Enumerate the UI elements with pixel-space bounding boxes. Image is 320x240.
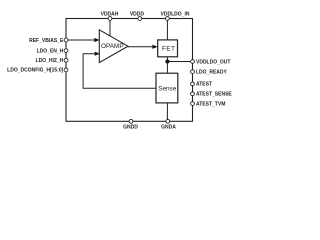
svg-text:VDDLDO_IN: VDDLDO_IN bbox=[161, 12, 190, 18]
port REF_VBIAS_E bbox=[29, 38, 68, 44]
svg-text:VDDLDO_OUT: VDDLDO_OUT bbox=[196, 59, 230, 65]
svg-text:LDO_EN_H: LDO_EN_H bbox=[37, 48, 64, 54]
wire: op-amp output to FET gate bbox=[128, 45, 158, 49]
svg-text:VDDD: VDDD bbox=[130, 12, 145, 18]
wire: VDDAH supply stub down to op-amp bbox=[109, 19, 111, 37]
port VDDAH bbox=[101, 12, 119, 21]
node: output junction bbox=[165, 60, 169, 64]
svg-text:VDDAH: VDDAH bbox=[101, 12, 119, 18]
port ATEST_TVM bbox=[191, 101, 226, 107]
svg-text:GNDA: GNDA bbox=[161, 125, 176, 131]
port VDDLDO_OUT bbox=[191, 59, 231, 65]
outer block boundary bbox=[66, 19, 193, 122]
svg-text:REF_VBIAS_E: REF_VBIAS_E bbox=[29, 38, 64, 44]
svg-text:ATEST_TVM: ATEST_TVM bbox=[196, 101, 225, 107]
svg-text:FET: FET bbox=[162, 46, 175, 53]
svg-text:GNDD: GNDD bbox=[123, 125, 138, 131]
port ATEST bbox=[191, 82, 212, 88]
svg-text:LDO_DCONFIG_H[15:0]: LDO_DCONFIG_H[15:0] bbox=[7, 68, 63, 74]
wire: output node to VDDLDO_OUT port bbox=[167, 61, 192, 63]
port LDO_READY bbox=[191, 70, 228, 76]
port GNDD bbox=[123, 119, 138, 130]
FET pass transistor bbox=[158, 40, 178, 57]
port LDO_EN_H bbox=[37, 48, 68, 54]
wire: FET source down to Sense bbox=[166, 57, 168, 73]
port LDO_DCONFIG_H[15:0] bbox=[7, 68, 68, 74]
port ATEST_SENSE bbox=[191, 92, 233, 98]
svg-text:ATEST_SENSE: ATEST_SENSE bbox=[196, 92, 232, 98]
wire: feedback from Sense to op-amp inverting input bbox=[83, 52, 156, 89]
wire: REF_VBIAS_E to op-amp non-inverting input bbox=[66, 38, 100, 42]
svg-text:LDO_READY: LDO_READY bbox=[196, 70, 228, 76]
svg-text:LDO_HIZ_H: LDO_HIZ_H bbox=[36, 58, 64, 64]
svg-text:Sense: Sense bbox=[158, 86, 177, 93]
svg-text:OPAMP: OPAMP bbox=[101, 43, 124, 50]
wire: Sense down to GNDA bbox=[166, 103, 168, 121]
op-amp U1 bbox=[99, 30, 128, 63]
wire: VDDLDO_IN down to FET drain bbox=[166, 19, 168, 41]
port LDO_HIZ_H bbox=[36, 58, 68, 64]
Sense block bbox=[156, 73, 178, 103]
svg-text:ATEST: ATEST bbox=[196, 82, 212, 88]
port VDDLDO_IN bbox=[161, 12, 190, 21]
port GNDA bbox=[161, 119, 176, 130]
port VDDD bbox=[130, 12, 145, 21]
